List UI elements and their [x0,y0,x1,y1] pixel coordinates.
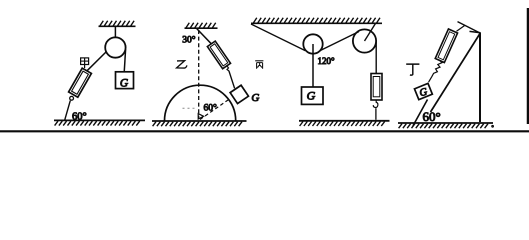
svg-text:G: G [307,89,316,103]
svg-text:G: G [251,92,259,104]
svg-text:60°: 60° [204,103,218,114]
svg-text:60°: 60° [423,109,441,124]
svg-text:G: G [419,87,429,99]
svg-text:120°: 120° [318,56,336,66]
svg-text:30°: 30° [182,35,196,46]
svg-text:G: G [120,77,129,89]
